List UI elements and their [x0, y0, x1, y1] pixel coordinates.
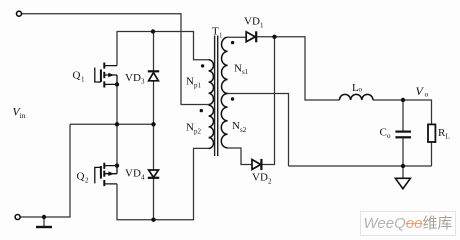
polarity dot Np1	[201, 64, 204, 67]
svg-text:s1: s1	[242, 68, 249, 76]
wire: Q1 source to Q2 top	[116, 84, 118, 165]
node Q1 source	[115, 82, 119, 86]
wire: output bottom rail	[289, 165, 432, 167]
transformer T1 core	[215, 36, 218, 157]
polarity dot Ns1	[231, 41, 234, 44]
wire: Vin+ top rail to primary center tap	[22, 14, 209, 105]
wire: output ground stem	[402, 166, 404, 178]
svg-text:in: in	[20, 111, 26, 120]
svg-text:p2: p2	[194, 128, 202, 136]
wire: VD4 cathode to bottom rail	[153, 178, 155, 220]
polarity dot Ns2	[231, 97, 234, 100]
wire: Ns2 bottom to VD2 anode	[228, 148, 252, 165]
winding Np2	[209, 105, 214, 148]
svg-text:2: 2	[268, 178, 272, 186]
transistor Q2	[95, 163, 117, 186]
wire: Q1 drain rail to Np1 top	[117, 32, 209, 66]
diode VD4	[148, 170, 159, 178]
node VD3 top	[151, 29, 155, 33]
wire: VD3 top lead	[153, 32, 155, 72]
svg-text:p1: p1	[194, 82, 202, 90]
transistor Q1	[95, 63, 117, 88]
svg-text:Q: Q	[77, 171, 85, 183]
wire: VD1 junction down to VD2 cathode	[261, 37, 274, 165]
node VD1 cathode junction	[272, 35, 276, 39]
node mid rail Q1	[115, 122, 119, 126]
svg-text:VD: VD	[252, 172, 268, 184]
svg-text:1: 1	[219, 32, 223, 40]
winding Ns1	[222, 37, 228, 93]
svg-text:s2: s2	[240, 126, 247, 134]
wire: Lo to Vo corner and RL top	[373, 100, 432, 124]
svg-text:o: o	[359, 86, 363, 94]
svg-text:VD: VD	[244, 16, 260, 28]
polarity dot Np2	[200, 109, 203, 112]
wire: RL bottom lead	[431, 142, 433, 166]
wire: left drop to Vin- terminal	[21, 124, 71, 217]
watermark box	[360, 211, 456, 236]
svg-text:VD: VD	[125, 168, 141, 180]
inductor Lo	[339, 94, 373, 100]
diode VD1	[246, 31, 256, 42]
wire: Q2 bottom to Np2 bottom	[117, 148, 209, 219]
svg-text:1: 1	[260, 22, 264, 30]
wire: Ns1 top to VD1 anode	[228, 36, 247, 38]
wire: VD3 anode to VD4 anode	[153, 81, 155, 170]
svg-text:T: T	[212, 26, 219, 38]
svg-text:V: V	[416, 84, 425, 98]
diode VD3	[148, 71, 159, 81]
wire: Co bottom lead	[402, 138, 404, 166]
winding Np1	[209, 60, 214, 105]
svg-text:4: 4	[141, 174, 145, 182]
wire: secondary center tap to output return	[228, 94, 289, 167]
wire: mid rail (Vin- node)	[70, 123, 154, 125]
capacitor Co	[395, 132, 411, 138]
node Vo	[401, 98, 405, 102]
node output ground	[401, 164, 405, 168]
winding Ns2	[221, 94, 227, 148]
svg-text:o: o	[387, 132, 391, 140]
resistor RL	[428, 124, 435, 142]
svg-text:L: L	[446, 133, 450, 141]
svg-text:N: N	[234, 63, 242, 75]
node mid rail VD3/VD4	[151, 122, 155, 126]
svg-text:N: N	[186, 122, 194, 134]
terminal Vin-	[15, 215, 20, 220]
wire: Co top lead	[402, 100, 404, 131]
diode VD2	[252, 159, 261, 170]
node Q2 top	[115, 163, 119, 167]
svg-text:N: N	[232, 120, 240, 132]
ground (left input)	[36, 226, 52, 228]
ground (output)	[395, 178, 410, 188]
wire: ground stem left	[43, 217, 45, 226]
terminal Vin+	[17, 11, 22, 16]
svg-text:2: 2	[85, 177, 89, 185]
svg-text:1: 1	[81, 76, 85, 84]
svg-text:3: 3	[141, 78, 145, 86]
node VD4 bottom	[151, 218, 155, 222]
node ground left	[42, 215, 46, 219]
svg-text:VD: VD	[125, 72, 141, 84]
svg-text:N: N	[186, 76, 194, 88]
svg-text:C: C	[380, 127, 387, 139]
svg-text:o: o	[425, 90, 429, 99]
svg-text:Q: Q	[73, 70, 81, 82]
wire: VD1 cathode to output corner	[257, 37, 340, 100]
